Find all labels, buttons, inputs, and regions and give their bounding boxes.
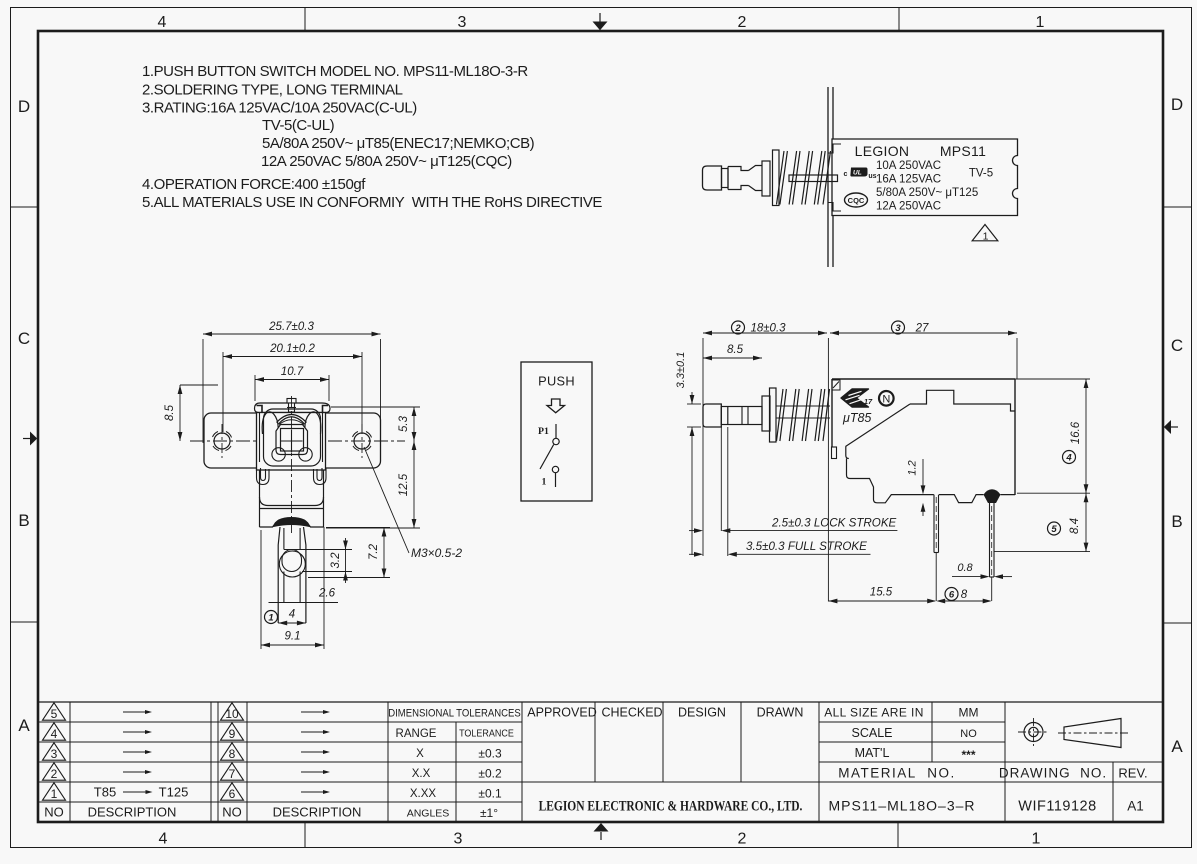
revision triangles column 2	[221, 703, 244, 801]
front view right hole center line	[361, 424, 363, 458]
svg-text:ALL SIZE ARE IN: ALL SIZE ARE IN	[824, 706, 924, 720]
side view spring seat washer	[770, 388, 777, 442]
svg-text:4: 4	[51, 727, 58, 741]
svg-text:12A 250VAC 5/80A 250V~ μT125(C: 12A 250VAC 5/80A 250V~ μT125(CQC)	[261, 153, 512, 170]
revision arrows column 2	[301, 710, 330, 794]
company name	[539, 797, 803, 813]
svg-text:M3×0.5-2: M3×0.5-2	[411, 546, 462, 560]
front view dome arcs	[277, 415, 307, 425]
side view NEMKO logo	[879, 391, 894, 406]
front view left spring wing	[262, 412, 278, 434]
side view KEMA logo	[841, 389, 873, 407]
svg-text:4: 4	[158, 14, 167, 31]
push schematic down arrow	[547, 399, 565, 413]
svg-text:2: 2	[734, 323, 741, 334]
label plate text 5/80A 250V~ uT125	[876, 187, 978, 199]
CQC certification logo	[845, 193, 868, 207]
svg-text:4: 4	[159, 831, 168, 848]
push schematic box	[521, 362, 592, 501]
front view bracket hooks	[257, 468, 327, 485]
front view dim 20.1±0.2	[223, 343, 362, 432]
push schematic contact P1	[553, 438, 559, 444]
svg-text:RANGE: RANGE	[396, 728, 437, 740]
svg-text:X.XX: X.XX	[410, 788, 437, 800]
front view rubber seal crescent	[274, 518, 310, 527]
svg-text:1: 1	[1032, 831, 1041, 848]
pictorial view label plate outline	[832, 139, 1018, 216]
front view dim 5.3	[331, 407, 420, 441]
front view housing cap	[255, 403, 331, 413]
push schematic wire P1	[555, 424, 557, 438]
svg-text:D: D	[1171, 95, 1183, 114]
svg-text:DRAWING NO.: DRAWING NO.	[999, 766, 1107, 781]
front view housing body	[257, 413, 326, 471]
svg-text:MM: MM	[959, 706, 979, 720]
side view dim 8	[936, 588, 992, 604]
svg-text:±0.2: ±0.2	[478, 767, 502, 781]
svg-text:WIF119128: WIF119128	[1018, 799, 1096, 815]
svg-text:1: 1	[51, 787, 58, 801]
front view lower base	[260, 470, 324, 527]
label plate text MPS11	[940, 143, 986, 159]
svg-text:UL: UL	[853, 170, 862, 177]
side view plunger rod	[776, 406, 830, 418]
svg-text:c: c	[844, 171, 848, 178]
svg-text:TOLERANCE: TOLERANCE	[459, 728, 514, 740]
side view plunger tip	[703, 404, 721, 427]
side view lock stroke dim	[689, 427, 897, 533]
front view right mounting hole	[353, 432, 372, 451]
front view dim 12.5	[326, 441, 420, 528]
svg-text:10.7: 10.7	[281, 366, 304, 378]
svg-text:20.1±0.2: 20.1±0.2	[269, 343, 315, 355]
svg-text:1: 1	[1036, 14, 1045, 31]
front view terminal hole	[279, 550, 305, 578]
cULus certification logo	[844, 168, 877, 181]
front view marker 1	[265, 611, 278, 624]
side view dim 16.6	[1015, 379, 1090, 493]
svg-text:P1: P1	[538, 426, 549, 437]
svg-text:B: B	[1171, 512, 1182, 531]
svg-text:3.RATING:16A 125VAC/10A 250VAC: 3.RATING:16A 125VAC/10A 250VAC(C-UL)	[142, 100, 417, 117]
side view dim 18±0.3	[703, 321, 827, 556]
svg-text:MPS11–ML18O–3–R: MPS11–ML18O–3–R	[828, 798, 975, 814]
warning triangle note 1	[972, 225, 998, 243]
push schematic terminal P1 label	[538, 426, 549, 437]
zone labels top	[158, 14, 1045, 31]
zone labels left	[18, 97, 30, 735]
svg-text:1: 1	[542, 477, 547, 488]
side view full stroke dim	[689, 427, 871, 557]
label plate text LEGION	[855, 143, 910, 159]
svg-text:2.5±0.3 LOCK STROKE: 2.5±0.3 LOCK STROKE	[771, 517, 897, 530]
side view body outline	[832, 379, 1016, 503]
svg-text:APPROVED: APPROVED	[527, 706, 596, 720]
svg-text:DESCRIPTION: DESCRIPTION	[88, 805, 177, 820]
svg-text:2: 2	[738, 14, 747, 31]
pictorial view plunger collar	[722, 169, 729, 188]
svg-text:B: B	[18, 511, 29, 530]
svg-text:±1°: ±1°	[480, 806, 498, 820]
svg-text:12A 250VAC: 12A 250VAC	[876, 201, 941, 213]
svg-text:18±0.3: 18±0.3	[750, 323, 786, 335]
svg-text:μT85: μT85	[842, 411, 871, 425]
svg-text:CQC: CQC	[848, 196, 865, 205]
svg-text:12.5: 12.5	[398, 473, 410, 496]
bottom centering arrow	[594, 823, 609, 840]
svg-text:9: 9	[229, 727, 236, 741]
notes text block	[142, 63, 602, 211]
svg-text:2.6: 2.6	[318, 588, 336, 600]
title block grid	[38, 702, 1163, 822]
front view center line horizontal	[190, 440, 405, 442]
svg-text:C: C	[1171, 336, 1183, 355]
pictorial view plunger tip	[703, 166, 722, 190]
svg-text:3.3±0.1: 3.3±0.1	[675, 352, 687, 389]
svg-text:MPS11: MPS11	[940, 143, 986, 159]
svg-text:DIMENSIONAL TOLERANCES: DIMENSIONAL TOLERANCES	[388, 708, 521, 720]
pictorial view washer small	[762, 161, 770, 196]
svg-text:±0.1: ±0.1	[478, 787, 502, 801]
svg-text:T85: T85	[94, 785, 116, 800]
side view dim 8.4	[994, 493, 1090, 551]
front view thread callout M3x0.5-2	[364, 447, 462, 560]
svg-text:10: 10	[225, 707, 239, 721]
svg-text:5: 5	[51, 707, 58, 721]
tolerance table labels	[396, 728, 514, 820]
svg-text:3: 3	[895, 323, 901, 334]
front view dim 10.7	[255, 366, 329, 401]
svg-text:8.5: 8.5	[727, 344, 744, 356]
front view dim 3.2	[284, 538, 352, 583]
svg-text:MAT'L: MAT'L	[855, 746, 890, 760]
svg-text:±0.3: ±0.3	[478, 747, 502, 761]
drawing number header	[999, 766, 1148, 781]
svg-text:TV-5: TV-5	[969, 168, 993, 180]
label plate text 16A 125VAC	[876, 174, 941, 186]
svg-text:16A 125VAC: 16A 125VAC	[876, 174, 941, 186]
size and scale labels	[824, 706, 978, 781]
svg-text:LEGION ELECTRONIC & HARDWARE C: LEGION ELECTRONIC & HARDWARE CO., LTD.	[539, 797, 803, 813]
push schematic wire 1	[555, 473, 557, 487]
svg-text:10A 250VAC: 10A 250VAC	[876, 160, 941, 172]
side view dim 1.2	[907, 459, 926, 516]
svg-text:C: C	[18, 329, 30, 348]
revision row T85 to T125	[94, 785, 189, 800]
svg-text:1: 1	[268, 612, 273, 623]
side view dim 0.8	[952, 562, 1012, 579]
svg-text:7: 7	[229, 767, 236, 781]
revision triangles column 1	[43, 703, 66, 801]
svg-text:A: A	[18, 716, 30, 735]
svg-text:LEGION: LEGION	[855, 143, 910, 159]
label plate text 12A 250VAC	[876, 201, 941, 213]
svg-text:25.7±0.3: 25.7±0.3	[268, 321, 314, 333]
side view dim 27	[828, 321, 1017, 602]
front view left hole center line	[221, 424, 223, 458]
front view dim 4	[278, 609, 306, 626]
svg-text:15.5: 15.5	[870, 587, 893, 599]
right centering arrow	[1164, 420, 1178, 434]
svg-text:6: 6	[949, 589, 955, 600]
side view body corner tab	[832, 380, 841, 390]
front view dim 2.6	[269, 588, 339, 603]
push schematic label PUSH	[538, 374, 575, 389]
side view coil spring	[777, 389, 830, 441]
approval header labels	[527, 706, 803, 720]
svg-text:4.OPERATION FORCE:400 ±150gf: 4.OPERATION FORCE:400 ±150gf	[142, 176, 366, 193]
side view right pin	[990, 495, 995, 601]
side view dim 3.3±0.1	[675, 352, 701, 555]
title block NO DESCRIPTION labels	[44, 805, 361, 820]
svg-text:5/80A 250V~ μT125: 5/80A 250V~ μT125	[876, 187, 978, 199]
svg-text:NO: NO	[960, 728, 977, 740]
svg-text:4: 4	[1065, 452, 1072, 463]
top centering arrow	[593, 13, 608, 30]
svg-text:17: 17	[864, 397, 873, 406]
side view right pin seal	[984, 489, 1001, 503]
front view button inner square	[281, 429, 304, 452]
svg-text:8.5: 8.5	[164, 404, 176, 421]
tolerance table header	[388, 708, 521, 720]
svg-text:8: 8	[229, 747, 236, 761]
push schematic contact 1	[552, 466, 558, 472]
pictorial view mounting plate edge	[828, 87, 841, 267]
svg-text:3: 3	[458, 14, 467, 31]
svg-text:4: 4	[289, 609, 295, 621]
svg-text:N: N	[882, 393, 890, 405]
svg-text:5A/80A 250V~ μT85(ENEC17;NEMKO: 5A/80A 250V~ μT85(ENEC17;NEMKO;CB)	[262, 135, 535, 152]
pictorial view coil spring	[777, 151, 831, 205]
side view dim 15.5	[828, 587, 936, 604]
front view solder terminal	[278, 527, 306, 623]
zone labels right	[1171, 95, 1183, 756]
svg-text:3: 3	[454, 831, 463, 848]
front view dim 7.2	[308, 528, 390, 578]
svg-text:27: 27	[915, 323, 929, 335]
side view dim 8.5	[703, 344, 762, 360]
left centering arrow	[23, 432, 37, 446]
svg-text:A: A	[1171, 737, 1183, 756]
svg-text:DESCRIPTION: DESCRIPTION	[273, 805, 362, 820]
svg-text:9.1: 9.1	[285, 631, 301, 643]
svg-text:CHECKED: CHECKED	[601, 706, 662, 720]
svg-text:TV-5(C-UL): TV-5(C-UL)	[262, 117, 335, 134]
front view push button shaft	[287, 399, 296, 413]
pictorial view plunger knurled block	[728, 166, 762, 191]
svg-text:7.2: 7.2	[368, 543, 380, 560]
svg-text:us: us	[868, 173, 876, 180]
front view button outer square	[276, 425, 308, 455]
front view left mounting hole	[213, 432, 232, 451]
svg-text:8.4: 8.4	[1069, 518, 1081, 534]
front view boss circles	[272, 448, 312, 461]
side view washer small	[762, 396, 770, 431]
svg-text:X.X: X.X	[412, 768, 431, 780]
svg-text:1: 1	[983, 231, 989, 243]
svg-text:1.PUSH BUTTON SWITCH MODEL NO.: 1.PUSH BUTTON SWITCH MODEL NO. MPS11-ML1…	[142, 63, 528, 80]
svg-text:16.6: 16.6	[1070, 421, 1082, 444]
svg-text:2: 2	[51, 767, 58, 781]
svg-text:1.2: 1.2	[907, 460, 919, 475]
zone labels bottom	[159, 831, 1041, 848]
svg-text:DESIGN: DESIGN	[678, 706, 726, 720]
drawing number value	[1018, 799, 1143, 815]
pictorial view plunger rod	[789, 175, 838, 182]
svg-text:X: X	[416, 748, 424, 760]
svg-text:8: 8	[961, 589, 968, 601]
push schematic switch blade	[540, 445, 554, 470]
svg-text:5.3: 5.3	[398, 415, 410, 432]
part number	[828, 798, 975, 814]
front view button center cross	[281, 430, 303, 453]
svg-text:5.ALL MATERIALS USE IN CONFORM: 5.ALL MATERIALS USE IN CONFORMIY WITH TH…	[142, 194, 602, 211]
side view uT85 label	[842, 411, 871, 425]
svg-text:3: 3	[51, 747, 58, 761]
label plate text 10A 250VAC	[876, 160, 941, 172]
svg-text:PUSH: PUSH	[538, 374, 575, 389]
front view base bottom edge	[260, 523, 324, 528]
front view center line vertical	[291, 396, 293, 533]
front view right spring wing	[305, 412, 321, 434]
svg-text:2.SOLDERING TYPE, LONG TERMINA: 2.SOLDERING TYPE, LONG TERMINAL	[142, 82, 403, 99]
svg-text:NO: NO	[222, 805, 242, 820]
svg-text:6: 6	[229, 787, 236, 801]
label plate text TV-5	[969, 168, 993, 180]
revision arrows column 1	[123, 710, 152, 774]
svg-text:NO: NO	[44, 805, 64, 820]
front view dim 25.7±0.3	[203, 321, 381, 443]
svg-text:3.2: 3.2	[330, 552, 342, 569]
svg-text:REV.: REV.	[1118, 766, 1147, 781]
pictorial view spring seat washer	[773, 150, 780, 206]
svg-text:***: ***	[961, 748, 975, 762]
svg-text:2: 2	[738, 831, 747, 848]
svg-text:DRAWN: DRAWN	[757, 706, 804, 720]
side view plunger shaft	[721, 407, 762, 425]
svg-text:ANGLES: ANGLES	[407, 808, 450, 820]
front view housing inner base	[264, 409, 321, 466]
svg-text:5: 5	[1051, 524, 1057, 535]
svg-text:SCALE: SCALE	[852, 726, 893, 740]
front view dim 8.5	[164, 385, 218, 441]
svg-text:0.8: 0.8	[957, 562, 973, 574]
side view left pin	[934, 495, 939, 601]
push schematic terminal 1 label	[542, 477, 547, 488]
front view dim 9.1	[261, 527, 324, 649]
front view mounting bracket plate	[204, 413, 381, 468]
svg-text:D: D	[18, 97, 30, 116]
svg-text:T125: T125	[159, 785, 189, 800]
svg-text:3.5±0.3 FULL STROKE: 3.5±0.3 FULL STROKE	[746, 540, 867, 553]
svg-text:A1: A1	[1127, 799, 1144, 814]
svg-text:MATERIAL NO.: MATERIAL NO.	[838, 766, 956, 781]
side view cover seam and latch	[910, 390, 1015, 411]
third angle projection symbol	[1018, 718, 1128, 748]
